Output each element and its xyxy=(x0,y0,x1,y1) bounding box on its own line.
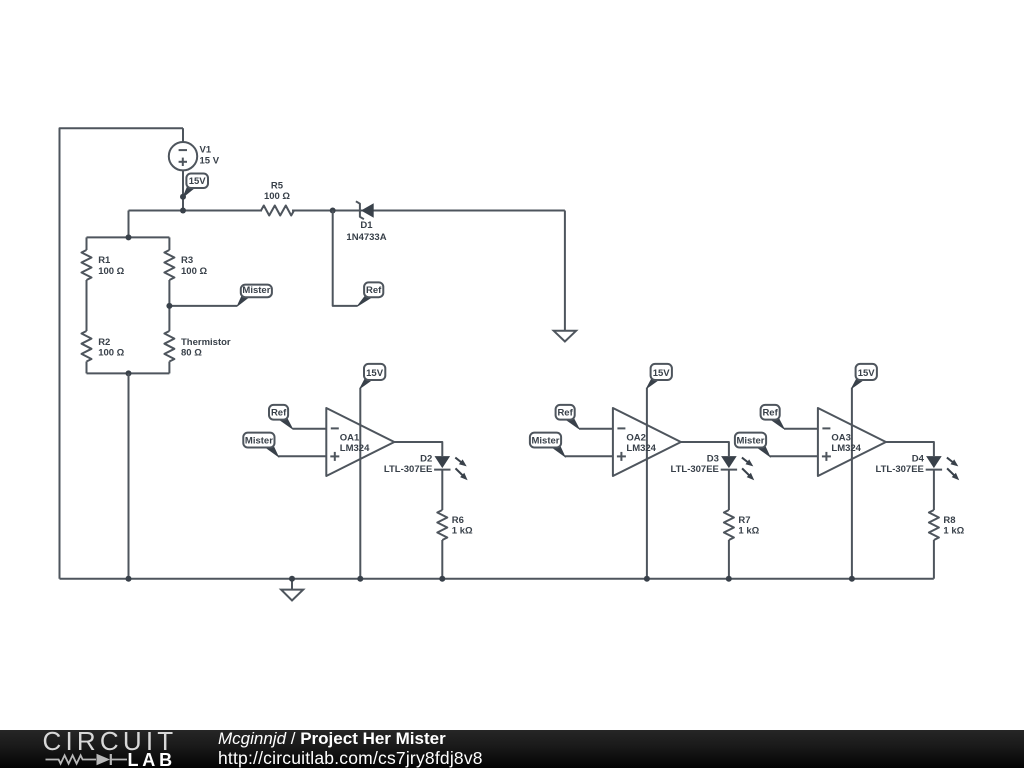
junction bridge bottom xyxy=(126,370,132,376)
svg-text:D1: D1 xyxy=(360,220,373,231)
footer bar xyxy=(0,730,1024,769)
net flag Mister (bridge) xyxy=(237,296,249,306)
net flag Mister (OA2) xyxy=(551,447,565,457)
svg-text:D3: D3 xyxy=(707,453,719,464)
footer url xyxy=(218,748,483,769)
wire R1 top lead xyxy=(86,237,88,250)
footer title xyxy=(218,729,446,749)
wire V1 bottom lead xyxy=(182,170,184,210)
svg-text:1 kΩ: 1 kΩ xyxy=(452,526,473,537)
resistor R2 100 Ohm xyxy=(82,331,92,362)
wire non-inverting input (Mister) OA2 xyxy=(565,455,613,457)
net flag Ref (zener) xyxy=(358,296,374,306)
resistor R6 1 kOhm xyxy=(437,510,447,540)
wire R8 to ground rail xyxy=(933,540,935,579)
wire inverting input (Ref) OA3 xyxy=(784,428,818,430)
svg-text:LM324: LM324 xyxy=(831,443,861,454)
LED D3 LTL-307EE xyxy=(721,456,737,468)
thermistor 80 Ohm xyxy=(164,331,174,362)
svg-text:100 Ω: 100 Ω xyxy=(98,347,124,358)
svg-text:15V: 15V xyxy=(858,368,876,379)
ground rail xyxy=(60,578,934,580)
LED D2 LTL-307EE xyxy=(435,456,451,468)
svg-text:R6: R6 xyxy=(452,515,464,526)
wire inverting input (Ref) OA2 xyxy=(579,428,613,430)
svg-text:15V: 15V xyxy=(189,176,207,187)
wire output OA2 to LED xyxy=(681,442,729,456)
svg-text:V1: V1 xyxy=(200,145,212,156)
svg-text:OA2: OA2 xyxy=(626,432,646,443)
svg-text:Mister: Mister xyxy=(242,285,270,296)
op-amp U2 OA2 LM324 xyxy=(613,408,681,476)
wire R3 top lead xyxy=(168,237,170,250)
svg-text:Ref: Ref xyxy=(271,407,287,418)
zener diode D1 1N4733A xyxy=(356,201,364,219)
svg-text:80 Ω: 80 Ω xyxy=(181,347,202,358)
wire R6 to ground rail xyxy=(441,540,443,579)
svg-text:15 V: 15 V xyxy=(200,156,220,167)
svg-text:Mister: Mister xyxy=(245,435,273,446)
svg-text:Ref: Ref xyxy=(557,407,573,418)
net flag 15V (source) xyxy=(183,187,195,197)
junction flag attach xyxy=(180,194,186,200)
wire inverting input (Ref) OA1 xyxy=(292,428,326,430)
junction V1 / horizontal xyxy=(180,208,186,214)
voltage source V1 15 V xyxy=(169,142,197,170)
svg-text:LM324: LM324 xyxy=(340,443,370,454)
CircuitLab logo text xyxy=(43,726,178,757)
wire bridge centre drop xyxy=(128,373,130,578)
svg-text:100 Ω: 100 Ω xyxy=(98,266,124,277)
wire R1-R2 xyxy=(86,280,88,331)
wire non-inverting input (Mister) OA1 xyxy=(278,455,326,457)
junction centre drop / rail xyxy=(126,576,132,582)
svg-text:LTL-307EE: LTL-307EE xyxy=(671,464,719,475)
resistor R7 1 kOhm xyxy=(724,510,734,540)
net flag 15V (OA3) xyxy=(852,379,865,388)
svg-text:OA3: OA3 xyxy=(831,432,851,443)
junction Mister tap xyxy=(166,303,172,309)
resistor R1 100 Ohm xyxy=(82,250,92,280)
op-amp OA2 power wire xyxy=(646,388,648,579)
wire R3 to thermistor xyxy=(168,280,170,331)
wire non-inverting input (Mister) OA3 xyxy=(770,455,818,457)
svg-text:15V: 15V xyxy=(366,368,384,379)
svg-text:1 kΩ: 1 kΩ xyxy=(943,526,964,537)
wire Ref branch from zener junction xyxy=(333,211,358,306)
logo resistor+diode emblem xyxy=(44,751,136,769)
resistor R3 100 Ohm xyxy=(164,250,174,280)
op-amp U1 OA1 LM324 xyxy=(326,408,394,476)
svg-text:R3: R3 xyxy=(181,255,193,266)
net flag Mister (OA1) xyxy=(265,447,279,457)
svg-text:R8: R8 xyxy=(943,515,955,526)
net flag Ref (OA2) xyxy=(565,419,579,429)
svg-text:1N4733A: 1N4733A xyxy=(346,232,386,243)
net flag Ref (OA3) xyxy=(770,419,784,429)
svg-text:Mister: Mister xyxy=(532,435,560,446)
wire bridge bottom xyxy=(87,372,170,374)
wire top run down to bridge xyxy=(128,211,130,238)
svg-text:LTL-307EE: LTL-307EE xyxy=(876,464,924,475)
net flag Ref (OA1) xyxy=(278,419,292,429)
wire R7 to ground rail xyxy=(728,540,730,579)
net flag 15V (OA1) xyxy=(360,379,373,388)
svg-text:LM324: LM324 xyxy=(626,443,656,454)
svg-text:1 kΩ: 1 kΩ xyxy=(738,526,759,537)
wire bridge top xyxy=(87,236,170,238)
svg-text:Thermistor: Thermistor xyxy=(181,337,231,348)
net flag Mister (OA3) xyxy=(756,447,770,457)
resistor R8 1 kOhm xyxy=(929,510,939,540)
svg-text:Ref: Ref xyxy=(366,285,382,296)
junction bridge top xyxy=(126,234,132,240)
resistor R5 100 Ohm xyxy=(261,206,294,216)
svg-text:R7: R7 xyxy=(738,515,750,526)
wire output OA1 to LED xyxy=(394,442,442,456)
wire output OA3 to LED xyxy=(886,442,934,456)
op-amp OA1 power wire xyxy=(359,388,361,579)
svg-text:Mister: Mister xyxy=(737,435,765,446)
junction zener branch xyxy=(330,208,336,214)
svg-text:OA1: OA1 xyxy=(340,432,360,443)
svg-text:100 Ω: 100 Ω xyxy=(181,266,207,277)
wire V1 top lead xyxy=(182,128,184,142)
svg-text:Ref: Ref xyxy=(762,407,778,418)
LED D4 LTL-307EE xyxy=(926,456,942,468)
wire LED cathode to R8 xyxy=(933,470,935,510)
svg-text:D2: D2 xyxy=(420,453,432,464)
wire left outer loop xyxy=(60,128,184,579)
svg-text:R1: R1 xyxy=(98,255,111,266)
ground (rail) xyxy=(291,579,293,590)
svg-text:15V: 15V xyxy=(653,368,671,379)
ground (upper) xyxy=(554,331,576,342)
junction rail dots xyxy=(357,576,363,582)
svg-text:D4: D4 xyxy=(912,453,925,464)
svg-text:R2: R2 xyxy=(98,337,110,348)
svg-text:100 Ω: 100 Ω xyxy=(264,191,290,202)
net flag 15V (OA2) xyxy=(647,379,660,388)
wire LED cathode to R7 xyxy=(728,470,730,510)
op-amp U3 OA3 LM324 xyxy=(818,408,886,476)
wire right drop to ground xyxy=(564,211,566,331)
svg-text:LTL-307EE: LTL-307EE xyxy=(384,464,432,475)
wire R2 bottom lead xyxy=(86,362,88,374)
wire R5 to D1 and right run xyxy=(292,210,565,212)
wire Mister tap xyxy=(169,305,237,307)
wire top horizontal run xyxy=(129,210,263,212)
op-amp OA3 power wire xyxy=(851,388,853,579)
wire LED cathode to R6 xyxy=(441,470,443,510)
wire thermistor bottom lead xyxy=(168,362,170,374)
